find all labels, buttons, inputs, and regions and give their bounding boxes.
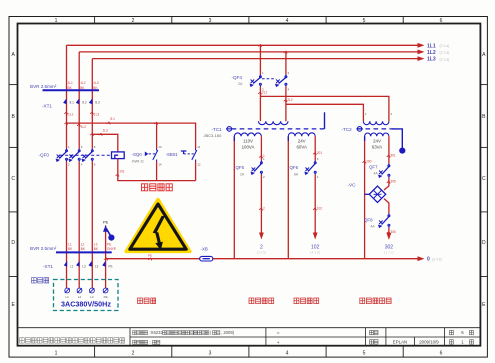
svg-text:2A: 2A (240, 172, 245, 176)
svg-text:3AC380V/50Hz: 3AC380V/50Hz (61, 300, 111, 309)
svg-text:63VA: 63VA (372, 145, 382, 150)
SB01 operator (181, 151, 194, 154)
TC2 secondary winding (365, 133, 389, 136)
svg-text:4: 4 (286, 350, 289, 356)
wire QF0 box down to 101 rail (118, 159, 196, 181)
wire drop to QF4 pole2 from 1L2 (285, 52, 287, 75)
svg-text:(2.4.b): (2.4.b) (432, 257, 442, 261)
terminal XT1 arrow (bottom, L1) (64, 261, 67, 267)
wire 2L2 to TC1 and TC2 (286, 87, 364, 122)
svg-text:1L3: 1L3 (427, 57, 436, 63)
svg-text:1L2: 1L2 (81, 125, 87, 129)
svg-text:102: 102 (317, 206, 323, 210)
svg-text:+: + (277, 341, 280, 346)
TC2 core dashed line (358, 128, 394, 130)
junction 1L1/QF4 (258, 45, 261, 47)
svg-text:3: 3 (209, 350, 212, 356)
BVR 2.5mm2 cable line (bottom) (56, 251, 112, 253)
wire tag 101 (116, 174, 119, 176)
TC1 110V secondary winding (234, 133, 261, 136)
svg-text:1L3: 1L3 (93, 81, 99, 85)
terminal XT1 arrow (top, L2) (76, 98, 79, 104)
svg-text:301: 301 (390, 153, 396, 157)
svg-text:L3: L3 (95, 264, 99, 268)
svg-text:1L2: 1L2 (80, 81, 86, 85)
svg-text:(2.1.a): (2.1.a) (440, 57, 450, 61)
wire tag PE on bus (148, 258, 151, 260)
wire 1L3 horizontal (92, 58, 418, 60)
arrow node 302 (387, 233, 392, 240)
svg-text:2A: 2A (238, 82, 243, 86)
svg-text:(2.1.a): (2.1.a) (440, 51, 450, 55)
wire SQ0 drop (156, 123, 158, 148)
svg-text:2: 2 (132, 350, 135, 356)
QF0 linkage dashed (60, 154, 112, 156)
wire tag 2L1 (258, 92, 261, 94)
svg-text:PE: PE (103, 219, 109, 224)
svg-text::: : (150, 340, 151, 345)
svg-text:BVR 2.5mm²: BVR 2.5mm² (30, 246, 57, 251)
arrow 1L1 (418, 43, 425, 48)
section label clutch supply (360, 298, 365, 304)
wire tag 306 (387, 232, 390, 234)
svg-text:6A: 6A (294, 172, 299, 176)
svg-text:L2: L2 (78, 295, 82, 299)
svg-text:1: 1 (55, 350, 58, 356)
svg-text:4A: 4A (374, 172, 379, 176)
circuit breaker QF4 pole 2 (275, 75, 287, 87)
svg-text:QF6: QF6 (290, 165, 299, 170)
section label control supply (249, 298, 254, 304)
svg-text:14: 14 (158, 162, 162, 166)
svg-text:-QF0: -QF0 (39, 153, 50, 158)
TC1 shield stub (324, 112, 326, 129)
PE earth branch + dot (106, 229, 110, 236)
section label door protection (138, 298, 143, 304)
wire tag 8.1 (107, 122, 110, 124)
svg-text:L2: L2 (81, 242, 85, 246)
BVR 2.5mm2 cable line (top) (43, 89, 100, 91)
project description text (133, 331, 137, 335)
svg-text:(4.1.b): (4.1.b) (310, 250, 320, 254)
svg-text:L3: L3 (90, 295, 94, 299)
QF4 linkage dashed (262, 78, 276, 80)
transformer TC2 primary winding (363, 121, 389, 124)
circuit breaker QF6 (305, 161, 317, 175)
svg-text:-SB01: -SB01 (166, 152, 179, 157)
wire L1 vertical (66, 45, 68, 288)
svg-text:12: 12 (197, 162, 201, 166)
circuit breaker QF0 pole 1 (56, 149, 68, 162)
svg-text:0: 0 (427, 257, 430, 263)
warning label text xiao xin chu dian (142, 184, 148, 191)
arrow node 2 (259, 233, 264, 240)
wire TC2 left lead to PE bus (364, 136, 366, 259)
svg-text:-XT1: -XT1 (42, 104, 52, 109)
QF0 operating box (112, 152, 125, 159)
svg-text:2: 2 (263, 206, 265, 210)
supply socket terminals (65, 288, 70, 293)
svg-text::X6232: :X6232 (150, 330, 164, 335)
wire 8.1 line A from L1 (67, 123, 196, 148)
wire tag 201 (313, 153, 316, 155)
svg-text:L1: L1 (70, 264, 74, 268)
TC1 earth terminal circle (226, 127, 233, 132)
svg-text:JWM-11: JWM-11 (132, 160, 144, 164)
wire 2L1 to TC1 and TC2 (260, 87, 389, 122)
svg-text:4: 4 (286, 18, 289, 24)
svg-text:-TC2: -TC2 (342, 127, 353, 132)
svg-text:L1: L1 (68, 242, 72, 246)
svg-text:306: 306 (390, 230, 396, 234)
terminal XT1 arrow (bottom, L3) (89, 261, 92, 267)
wire tag 102 (313, 208, 316, 210)
svg-text:305: 305 (390, 179, 396, 183)
wire tag 301 (387, 155, 390, 157)
wire tag 1L3 on line C (99, 133, 102, 135)
svg-text:-TC1: -TC1 (212, 127, 223, 132)
svg-text:5: 5 (363, 350, 366, 356)
svg-text:8.1: 8.1 (111, 117, 116, 121)
svg-text:201: 201 (317, 151, 323, 155)
wire to node 2 (260, 175, 262, 233)
circuit breaker QF4 pole 1 (250, 75, 262, 87)
wire 24V left lead to PE bus (287, 136, 289, 259)
TC2 screen earth wire + dot (393, 129, 403, 148)
sheet description text (133, 340, 137, 344)
svg-text:PE: PE (107, 242, 111, 246)
svg-text:3: 3 (209, 18, 212, 24)
svg-text:100VA: 100VA (242, 145, 255, 150)
wire 1L2 horizontal (79, 51, 418, 53)
circuit breaker QF5 (251, 161, 263, 175)
wire tag 305 (387, 181, 390, 183)
circuit breaker QF0 pole 3 (82, 149, 94, 162)
bridge rectifier VC (369, 186, 385, 202)
svg-text:2: 2 (132, 18, 135, 24)
label incoming supply (32, 278, 37, 283)
svg-text:1L1: 1L1 (68, 113, 74, 117)
svg-text:QF5: QF5 (236, 165, 245, 170)
svg-text:-SQ0: -SQ0 (132, 152, 143, 157)
svg-text:6: 6 (440, 18, 443, 24)
transformer TC1 primary winding (258, 121, 288, 124)
terminal XT1 arrow (top, L1) (63, 98, 66, 104)
warning triangle (126, 200, 190, 252)
arrow 1L3 (418, 56, 425, 61)
svg-text:L2: L2 (82, 264, 86, 268)
company name text (20, 338, 25, 343)
terminal XT1 arrow (top, L3) (89, 98, 92, 104)
terminal XT1 arrow (bottom, L2) (76, 261, 79, 267)
svg-text:2L1: 2L1 (262, 90, 268, 94)
svg-text:5: 5 (363, 18, 366, 24)
svg-text:11: 11 (197, 145, 200, 149)
junction 1L2/QF4 (284, 51, 287, 53)
svg-text:PE: PE (148, 253, 152, 257)
arrow node 0 (418, 256, 425, 261)
wire to node 302 (388, 228, 390, 234)
svg-text:1: 1 (55, 18, 58, 24)
junction L1/lineA (64, 122, 67, 124)
wire tag 1L3 below XT1 (90, 112, 93, 114)
wire PE vertical (105, 225, 107, 288)
svg-text:EPLAN: EPLAN (393, 340, 407, 345)
PE node arrow (up) (103, 225, 108, 232)
wire tag 1L2 (77, 124, 80, 126)
svg-text:1L3: 1L3 (94, 113, 100, 117)
wire 110V left lead to PE bus (233, 136, 235, 259)
TC1 24V secondary winding (288, 133, 315, 136)
svg-text:1L1: 1L1 (427, 43, 436, 49)
wire drop to QF4 pole1 from 1L1 (259, 45, 261, 74)
svg-text:D: D (11, 240, 15, 246)
svg-text:PE: PE (108, 264, 112, 268)
wire 1L1 horizontal (67, 44, 419, 46)
circuit breaker QF7 (378, 164, 390, 178)
svg-text:200: 200 (366, 159, 372, 163)
svg-text:8.1: 8.1 (70, 101, 75, 105)
svg-text:8.3: 8.3 (95, 101, 100, 105)
door switch SQ0 contact (153, 149, 158, 162)
wire tag 1L1 below XT1 (64, 112, 67, 114)
svg-text:4A: 4A (371, 225, 376, 229)
terminal XT1 arrow (bottom, PE) (102, 261, 105, 267)
svg-text:13: 13 (158, 145, 162, 149)
wire tag 2L2 (284, 100, 287, 102)
svg-text:1L3: 1L3 (103, 129, 109, 133)
wire 24V right lead (314, 136, 316, 160)
svg-text:(2.1.a): (2.1.a) (440, 44, 450, 48)
svg-text:24V: 24V (373, 139, 381, 144)
svg-text:101: 101 (119, 170, 125, 174)
svg-text:-VC: -VC (348, 183, 357, 188)
circuit breaker QF8 (378, 214, 390, 228)
wire 1L3 line C to QF0 box (92, 134, 118, 152)
svg-text:2L2: 2L2 (287, 98, 293, 102)
svg-text:C: C (482, 176, 486, 182)
wire tag 2 (259, 208, 262, 210)
incoming supply dashed box (54, 280, 119, 311)
svg-text:(1.7.c): (1.7.c) (384, 250, 393, 254)
wire TC2 right lead (388, 136, 390, 163)
PE 0V bus wire (106, 258, 418, 260)
lightning bolt (153, 216, 165, 234)
junction lineA/SQ0 (154, 122, 157, 124)
wire tag 1 (259, 156, 262, 158)
removable link XB (200, 256, 213, 261)
svg-text:L3: L3 (94, 242, 98, 246)
wire 110V right lead (260, 136, 262, 160)
svg-text:QF8: QF8 (364, 217, 373, 222)
svg-text:-QF4: -QF4 (232, 75, 243, 80)
TC1 core dashed line (232, 128, 325, 130)
wire tag 200 (362, 161, 365, 163)
svg-text:D: D (482, 240, 486, 246)
TC2 earth terminal circle (356, 127, 363, 132)
svg-text:QF7: QF7 (369, 164, 378, 169)
wire VC AC2 to earthed lead (365, 193, 370, 195)
svg-text:8.2: 8.2 (82, 101, 87, 105)
svg-text:JBC3-160: JBC3-160 (204, 133, 223, 138)
junction PE/bus (104, 258, 107, 260)
designer label (370, 340, 374, 344)
svg-text:-XT1: -XT1 (43, 264, 53, 269)
wire VC output down (384, 199, 389, 214)
svg-text:BVR 2.5mm²: BVR 2.5mm² (30, 84, 57, 89)
svg-text:60VA: 60VA (296, 145, 306, 150)
section label lighting supply (294, 298, 299, 304)
svg-text:-XB: -XB (201, 246, 208, 251)
svg-text:110V: 110V (243, 139, 253, 144)
title block (18, 328, 481, 346)
svg-text:6: 6 (440, 350, 443, 356)
wire to node 102 (314, 175, 316, 233)
svg-text:2009/10/9: 2009/10/9 (419, 340, 439, 345)
wire L3 vertical (91, 59, 93, 288)
arrow 1L2 (418, 50, 425, 55)
svg-text:, 2009): , 2009) (221, 330, 235, 335)
circuit breaker QF0 pole 2 (69, 149, 81, 162)
svg-text:1L2: 1L2 (427, 50, 436, 56)
svg-text:C: C (11, 176, 15, 182)
svg-text:GNYE: GNYE (107, 247, 116, 251)
svg-text:L1: L1 (66, 295, 70, 299)
svg-text:(3.1.b): (3.1.b) (257, 250, 267, 254)
svg-text:=: = (277, 331, 280, 336)
wire L2 vertical (78, 52, 80, 288)
svg-text:PE: PE (104, 295, 108, 299)
SQ0 plunger + dashed link (145, 152, 149, 157)
drawing no. label (370, 330, 374, 334)
svg-text:1L1: 1L1 (68, 81, 74, 85)
svg-text:24V: 24V (298, 139, 306, 144)
page count cells (450, 330, 454, 334)
arrow node 102 (313, 233, 318, 240)
emergency button SB01 contact (192, 149, 197, 162)
wire QF7 to rectifier (384, 178, 389, 191)
junction L3/lineC (90, 133, 93, 135)
